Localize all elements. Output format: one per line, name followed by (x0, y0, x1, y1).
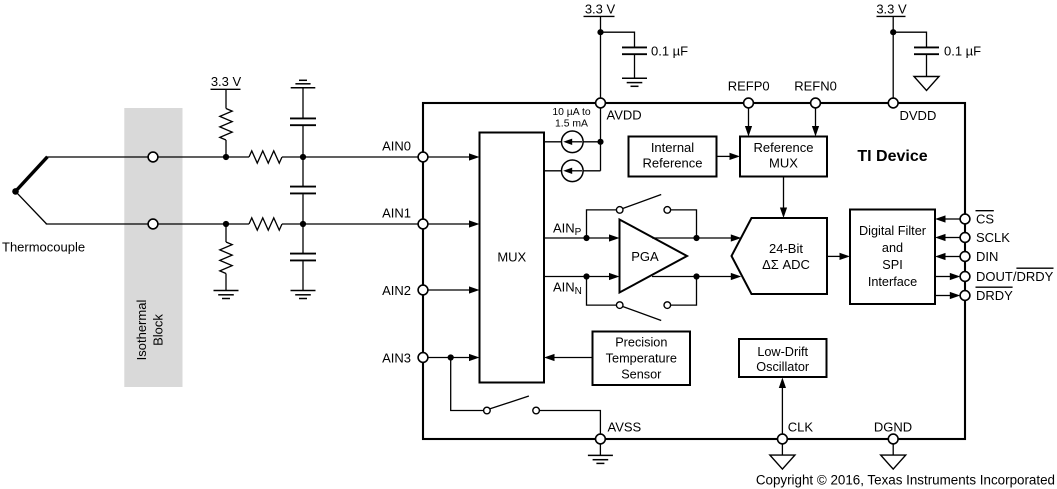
wire REFN0 to refmux (812, 103, 819, 137)
wire intref to refmux (717, 153, 741, 160)
wire DIN (935, 253, 961, 260)
label low-drift oscillator (756, 345, 810, 374)
label digital filter (859, 224, 927, 289)
ground CLK (triangle) (770, 455, 795, 469)
isothermal block label (134, 300, 165, 361)
supply 3.3V DVDD (876, 1, 907, 103)
ground C3 (291, 291, 316, 299)
pin AIN3 (418, 353, 428, 363)
pin DGND (888, 434, 898, 444)
wire AIN0 left (47, 156, 250, 158)
svg-text:10 µA to: 10 µA to (552, 107, 591, 118)
resistor pull-up (220, 109, 232, 158)
wire AIN3 to mux (423, 354, 480, 361)
capacitor C2 (290, 187, 316, 194)
label DRDY2 (976, 287, 1014, 303)
wire C2-AIN1 (302, 194, 304, 224)
wire CLK gnd (781, 439, 783, 455)
pin DOUT/DRDY (960, 272, 970, 282)
label AIN2 (382, 283, 411, 298)
ground bypass left (622, 78, 647, 86)
wire AIN1 left (46, 223, 249, 225)
label internal reference (643, 140, 703, 171)
svg-text:CLK: CLK (788, 420, 814, 435)
wire AIN0 to mux (423, 153, 480, 160)
svg-text:Temperature: Temperature (606, 351, 677, 365)
junction DVDD bypass (890, 29, 896, 35)
svg-text:PGA: PGA (631, 249, 659, 264)
switch contact B2 (664, 302, 671, 309)
TI device box (423, 103, 965, 439)
capacitor C3 (290, 254, 316, 261)
svg-text:Precision: Precision (615, 335, 667, 349)
wire gnd-C1 (302, 88, 304, 119)
pin DRDY (960, 291, 970, 301)
switch contact S1 (484, 407, 491, 414)
svg-text:Reference: Reference (754, 140, 814, 155)
svg-text:Copyright © 2016, Texas Instru: Copyright © 2016, Texas Instruments Inco… (756, 472, 1055, 487)
pin AVSS (596, 434, 606, 444)
junction AIN0-C (300, 154, 306, 160)
resistor series AIN0 (249, 151, 282, 163)
wire DOUT (935, 273, 960, 280)
svg-text:REFP0: REFP0 (728, 78, 770, 93)
copyright (756, 472, 1055, 487)
capacitor C1 (290, 118, 316, 125)
pin REFN0 (811, 98, 821, 108)
wire PGA out N to adc (652, 273, 741, 280)
digital filter U6 (850, 210, 935, 305)
junction AIN1-C (300, 221, 306, 227)
pga U4 (620, 220, 688, 293)
label CS (976, 211, 995, 227)
wire SCLK (935, 234, 961, 241)
label AIN0 (382, 139, 411, 154)
pin AIN1 (418, 219, 428, 229)
label reference mux (754, 140, 814, 171)
pin AIN0 (418, 152, 428, 162)
svg-text:ΔΣ ADC: ΔΣ ADC (762, 257, 810, 272)
junction PGA out N (693, 273, 699, 279)
thermocouple (12, 157, 47, 224)
label DIN (976, 249, 998, 264)
junction AINN (583, 273, 589, 279)
wire PGA out P to adc (652, 234, 741, 241)
junction PGA out P (693, 235, 699, 241)
pin CS (960, 214, 970, 224)
wire AIN2 to mux (423, 286, 480, 293)
wire DGND gnd (892, 439, 894, 455)
wire REFP0 to refmux (745, 103, 752, 137)
current source I2 (544, 160, 601, 182)
svg-text:AIN3: AIN3 (382, 351, 411, 366)
wire DRDY (935, 292, 960, 299)
label SCLK (976, 230, 1010, 245)
label 0.1uF right (944, 44, 981, 59)
wire AIN0 right (282, 156, 423, 158)
svg-text:3.3 V: 3.3 V (211, 74, 242, 89)
junction AVDD bypass (597, 29, 603, 35)
wire cap-gnd left (634, 55, 636, 78)
wire AIN1-C3 (302, 224, 304, 254)
svg-text:MUX: MUX (769, 156, 798, 171)
pin AVDD (596, 98, 606, 108)
svg-text:DVDD: DVDD (900, 108, 937, 123)
wire CS (935, 215, 961, 222)
adc U5 (732, 218, 828, 294)
pin REFP0 (744, 98, 754, 108)
svg-text:MUX: MUX (497, 250, 526, 265)
pin AIN2 (418, 285, 428, 295)
pin DVDD (888, 98, 898, 108)
label AINN (553, 280, 582, 297)
resistor pull-down (220, 224, 232, 291)
pin DIN (960, 252, 970, 262)
svg-text:SCLK: SCLK (976, 230, 1010, 245)
svg-text:Reference: Reference (643, 156, 703, 171)
svg-text:1.5 mA: 1.5 mA (555, 118, 588, 129)
svg-text:Isothermal: Isothermal (134, 300, 149, 361)
wire AINP (544, 234, 620, 241)
wire C3-gnd (302, 261, 304, 290)
svg-text:TI Device: TI Device (857, 148, 927, 165)
ground pull-down (214, 291, 239, 299)
svg-text:Thermocouple: Thermocouple (2, 240, 85, 255)
supply 3.3V AVDD (584, 1, 616, 103)
svg-text:SPI: SPI (882, 258, 902, 272)
wire avdd internal (600, 103, 602, 171)
switch chop bottom (587, 277, 697, 321)
svg-text:0.1 µF: 0.1 µF (651, 44, 688, 59)
junction AINP (583, 235, 589, 241)
label AVDD (607, 108, 642, 123)
internal reference U2 (629, 137, 717, 177)
wire AIN0-C2 (302, 157, 304, 187)
switch contact T1 (616, 207, 623, 214)
svg-text:DGND: DGND (874, 420, 912, 435)
label excitation current (552, 107, 591, 130)
svg-text:and: and (882, 241, 903, 255)
label MUX (497, 250, 526, 265)
label PGA (631, 249, 659, 264)
svg-text:Digital Filter: Digital Filter (859, 224, 927, 238)
label Thermocouple (2, 240, 85, 255)
junction AIN1-R (223, 221, 229, 227)
wire AIN1 to mux (423, 220, 480, 227)
ground top (flipped) (291, 80, 316, 88)
resistor series AIN1 (249, 218, 282, 230)
label AVSS (608, 420, 642, 435)
switch chop top (587, 195, 697, 239)
junction I1-avdd (597, 139, 603, 145)
svg-text:AVDD: AVDD (607, 108, 642, 123)
switch contact S2 (533, 407, 540, 414)
ground bypass right (triangle) (914, 77, 939, 91)
wire bypass left (601, 32, 635, 48)
label CLK (788, 420, 814, 435)
label REFN0 (794, 78, 837, 93)
wire AINN (544, 273, 620, 280)
junction AIN0-R (223, 154, 229, 160)
wire C1-AIN0 (302, 126, 304, 157)
capacitor 0.1uF left (622, 47, 647, 54)
svg-text:Sensor: Sensor (621, 367, 662, 381)
svg-text:3.3 V: 3.3 V (876, 1, 907, 16)
supply 3.3V left (211, 74, 242, 109)
svg-text:Oscillator: Oscillator (756, 360, 810, 374)
switch contact T2 (664, 207, 671, 214)
label DGND (874, 420, 912, 435)
label precision temp sensor (606, 335, 677, 381)
reference mux U3 (740, 137, 827, 177)
switch burnout (451, 358, 601, 440)
ground DGND (triangle) (881, 455, 906, 469)
svg-text:24-Bit: 24-Bit (769, 241, 803, 256)
svg-text:DIN: DIN (976, 249, 998, 264)
ground AVSS (588, 455, 613, 463)
terminal top (148, 152, 158, 162)
isothermal block (124, 108, 182, 387)
label 24-bit adc (762, 241, 810, 272)
pin CLK (778, 434, 788, 444)
label AIN1 (382, 205, 411, 220)
capacitor 0.1uF right (914, 47, 939, 54)
terminal bottom (148, 219, 158, 229)
svg-text:CS: CS (976, 212, 994, 227)
svg-text:AIN0: AIN0 (382, 139, 411, 154)
wire refmux to adc (780, 177, 787, 219)
wire AVSS gnd (599, 439, 601, 455)
wire AIN1 right (282, 223, 423, 225)
low-drift oscillator U8 (739, 339, 827, 377)
current source I1 (544, 131, 601, 153)
svg-text:AIN1: AIN1 (382, 205, 411, 220)
label TI Device (857, 148, 927, 165)
svg-text:Block: Block (150, 314, 165, 346)
switch contact B1 (616, 302, 623, 309)
junction AIN3 (448, 354, 454, 360)
svg-text:Interface: Interface (868, 275, 917, 289)
svg-text:0.1 µF: 0.1 µF (944, 44, 981, 59)
wire bypass right (893, 32, 926, 48)
wire adc to filter (827, 253, 850, 260)
svg-text:Internal: Internal (651, 140, 694, 155)
svg-text:DRDY: DRDY (976, 288, 1013, 303)
svg-text:REFN0: REFN0 (794, 78, 837, 93)
wire clk to oscillator (779, 378, 786, 440)
wire temp sensor to mux (544, 354, 593, 361)
pin SCLK (960, 233, 970, 243)
label AINP (553, 221, 582, 238)
svg-text:DOUT/DRDY: DOUT/DRDY (976, 269, 1054, 284)
label AIN3 (382, 351, 411, 366)
svg-text:3.3 V: 3.3 V (585, 1, 616, 16)
label 0.1uF left (651, 44, 688, 59)
label REFP0 (728, 78, 770, 93)
svg-text:Low-Drift: Low-Drift (757, 345, 808, 359)
label DVDD (900, 108, 937, 123)
svg-text:AVSS: AVSS (608, 420, 642, 435)
svg-text:AIN2: AIN2 (382, 283, 411, 298)
wire cap-gnd right (926, 55, 928, 77)
mux U1 (480, 133, 545, 383)
precision temp sensor U7 (593, 332, 691, 386)
label DOUT/DRDY (976, 268, 1054, 284)
